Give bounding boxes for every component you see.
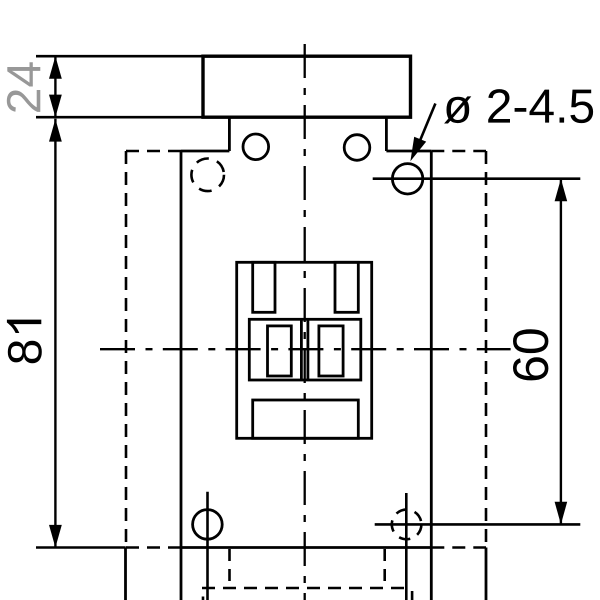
slot line through bottom-right hole	[405, 493, 408, 600]
dimension 24 line	[54, 56, 56, 117]
dimension 24 top extension line	[36, 55, 203, 58]
dimension 60 arrow up	[555, 179, 568, 202]
neck left edge	[228, 117, 231, 151]
small circle under head left	[243, 134, 269, 160]
vertical centerline	[304, 44, 306, 600]
mounting hole bottom-left	[193, 510, 223, 540]
dimension 81 line	[54, 119, 56, 548]
mounting hole top-right	[392, 164, 422, 194]
dimension 81 arrow up	[49, 119, 62, 142]
leader line for hole callout	[417, 104, 436, 150]
label 24 (grey, rotated)	[7, 62, 41, 112]
dimension 60 top extension line	[373, 177, 581, 180]
head block (top actuator housing)	[203, 56, 411, 117]
middle band center divider right	[306, 319, 309, 380]
hidden lower box right edge (dashed)	[383, 549, 386, 586]
hidden lower edge (dashed horizontal)	[202, 587, 407, 590]
hidden outline top edge right (dashed)	[431, 150, 486, 153]
dimension 60 line	[560, 179, 562, 525]
leader arrowhead	[410, 137, 426, 162]
contact window left	[268, 326, 292, 376]
small circle under head right	[344, 135, 370, 161]
contact block middle band	[249, 319, 360, 380]
bottom stub left	[202, 597, 205, 600]
hidden outline bottom edge right (dashed)	[431, 546, 486, 549]
horizontal centerline	[100, 348, 511, 350]
plate right edge	[430, 151, 433, 600]
middle band center divider left	[300, 319, 303, 380]
hidden outline left edge (dashed)	[125, 151, 128, 548]
contact block top-left slot	[253, 262, 275, 312]
plate top edge right segment	[386, 150, 431, 153]
label 81 (rotated)	[7, 320, 42, 364]
contact block top-right slot	[335, 262, 358, 312]
dimension 60 bottom extension line	[375, 523, 581, 526]
slot line through bottom-left hole	[206, 492, 209, 600]
dimension 60 arrow down	[555, 502, 568, 525]
dimension shared extension line (head bottom level)	[36, 116, 203, 119]
hidden outline right edge (dashed)	[485, 151, 488, 548]
bottom stub right	[411, 591, 414, 600]
plate bottom edge	[181, 546, 431, 549]
contact window right	[319, 326, 343, 376]
hidden outline top edge left (dashed)	[126, 150, 181, 153]
contact block outer rect	[237, 262, 372, 438]
hidden outline bottom edge left (dashed)	[126, 546, 181, 549]
plate top edge left segment	[181, 150, 229, 153]
mounting hole bottom-right (dashed circle)	[392, 510, 422, 540]
contact block bottom rect	[253, 400, 359, 438]
dimension 81 arrow down	[49, 525, 62, 548]
lower body left edge	[124, 548, 127, 600]
neck right edge	[385, 117, 388, 151]
plate left edge	[180, 151, 183, 600]
dimension 81 bottom extension line	[36, 546, 126, 549]
lower body right edge	[485, 548, 488, 600]
dimension 24 arrow down	[49, 95, 62, 118]
label 60 (rotated)	[513, 329, 548, 380]
label hole diameter callout	[444, 89, 593, 123]
mounting hole top-left (dashed circle)	[191, 159, 224, 192]
dimension 24 arrow up	[49, 56, 62, 79]
hidden lower box left edge (dashed)	[228, 549, 231, 586]
